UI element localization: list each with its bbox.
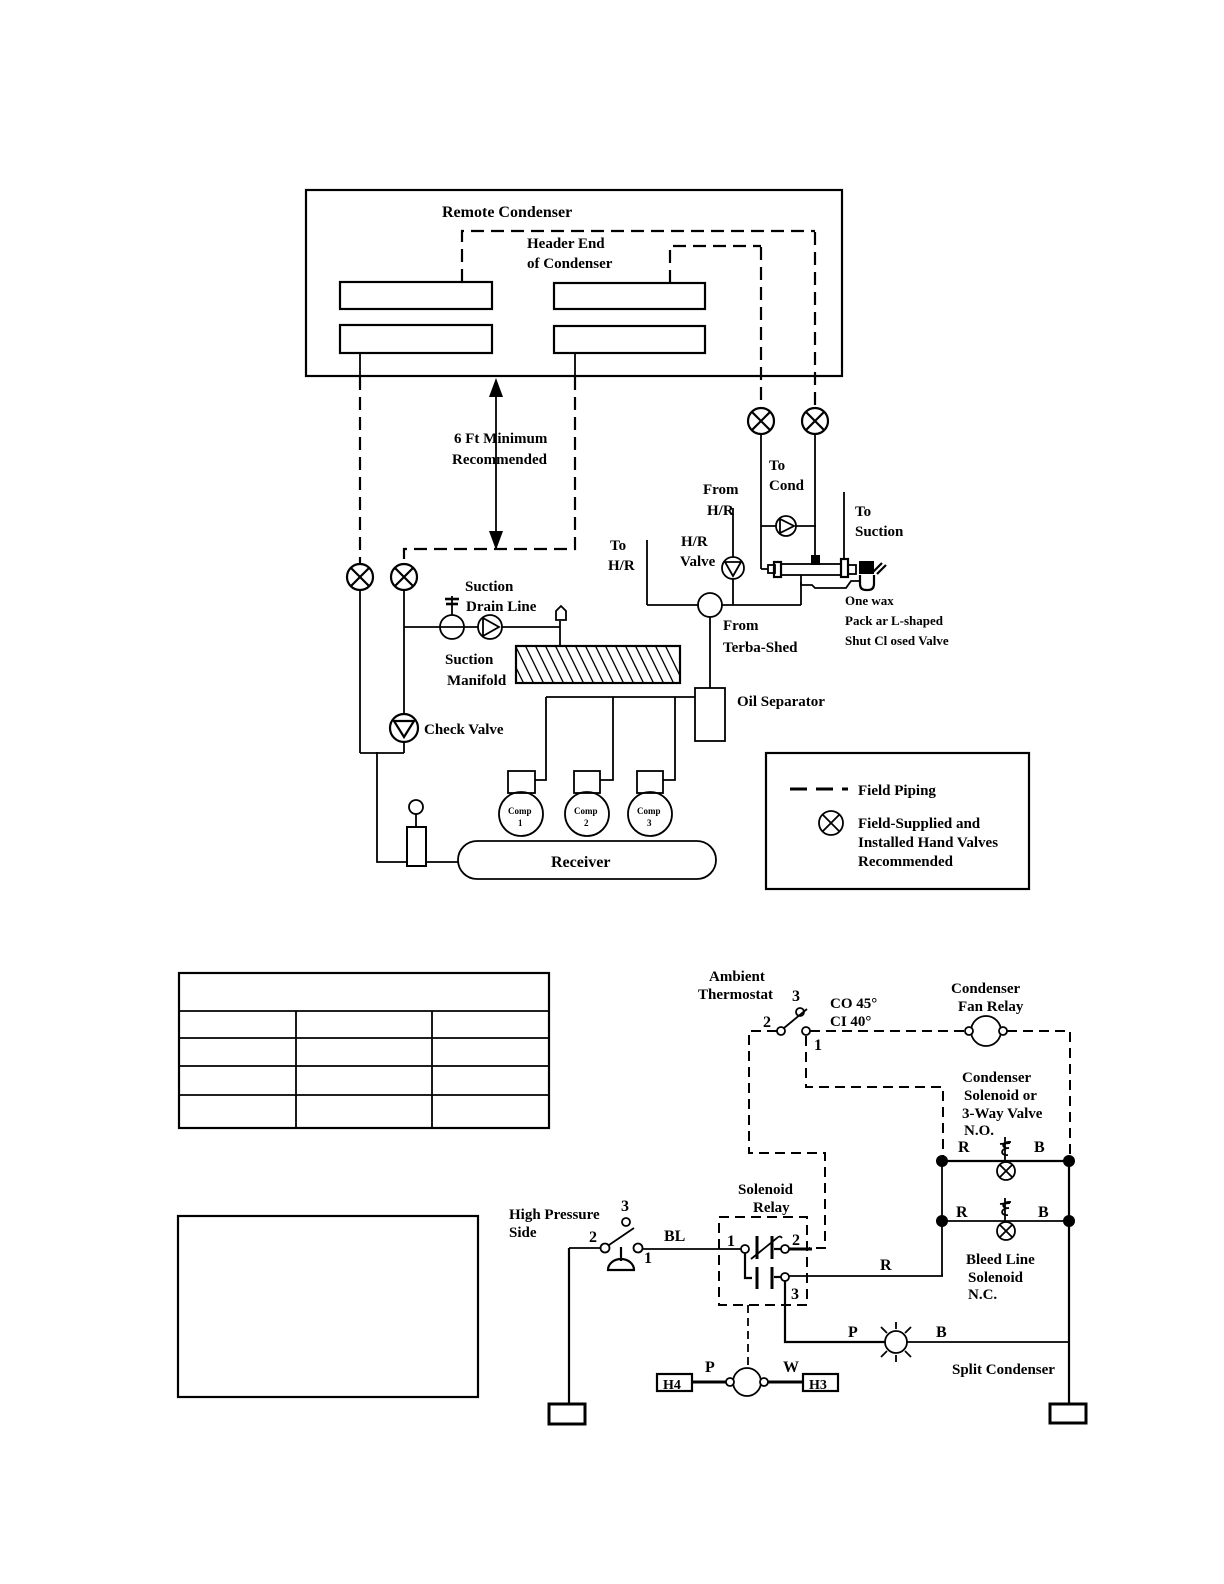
wire To Cond drop (760, 434, 762, 569)
svg-text:2: 2 (792, 1232, 800, 1249)
access fitting on drain line (445, 596, 459, 615)
svg-text:Suction: Suction (465, 579, 514, 595)
hand valve V2 (391, 564, 417, 590)
oil separator (695, 688, 725, 741)
wire pilot to right bus (907, 1341, 1069, 1343)
hand valve V3 (748, 408, 774, 434)
svg-text:Condenser: Condenser (951, 981, 1021, 997)
condenser fan relay coil (965, 1016, 1007, 1046)
bleed line solenoid line (942, 1220, 1069, 1222)
svg-text:R: R (956, 1204, 968, 1221)
svg-text:Side: Side (509, 1225, 537, 1241)
svg-text:3: 3 (621, 1198, 629, 1215)
svg-text:2: 2 (589, 1229, 597, 1246)
wire discharge header (546, 696, 695, 698)
svg-text:Comp: Comp (574, 806, 598, 816)
svg-text:Cond: Cond (769, 478, 805, 494)
svg-text:CO 45°: CO 45° (830, 996, 877, 1012)
svg-text:Pack ar L-shaped: Pack ar L-shaped (845, 613, 944, 628)
wire coil4 drop (574, 353, 576, 376)
svg-text:1: 1 (814, 1037, 822, 1054)
svg-text:Installed Hand Valves: Installed Hand Valves (858, 835, 998, 851)
svg-text:Solenoid or: Solenoid or (964, 1088, 1037, 1104)
svg-text:Recommended: Recommended (858, 854, 954, 870)
relay contact bar lower left (756, 1267, 759, 1289)
wire right drop to exchanger (814, 434, 816, 556)
svg-text:N.O.: N.O. (964, 1123, 994, 1139)
svg-text:To: To (610, 538, 626, 554)
svg-text:From: From (723, 618, 759, 634)
wire dashed fan relay to right bus (1007, 1031, 1070, 1156)
heat exchanger outlet stub (848, 565, 856, 574)
svg-text:3: 3 (792, 988, 800, 1005)
suction manifold (505, 645, 684, 684)
heat exchanger right cap (841, 559, 848, 577)
relay terminal 3 stub (774, 1276, 781, 1278)
svg-text:Field Piping: Field Piping (858, 783, 936, 799)
svg-text:Solenoid: Solenoid (738, 1182, 794, 1198)
wire liquid drop to receiver inlet (377, 752, 407, 862)
wire dashed left liquid drop (359, 377, 361, 563)
condenser solenoid coil symbol (997, 1137, 1015, 1180)
compressor Comp 1 (499, 771, 543, 836)
wire bottom liquid run (360, 752, 404, 754)
svg-text:Check Valve: Check Valve (424, 722, 504, 738)
node From Terba-Shed junction (698, 593, 722, 617)
drain line sight glass (440, 615, 464, 639)
svg-text:Fan Relay: Fan Relay (958, 999, 1024, 1015)
condenser coil 3 (554, 283, 705, 309)
svg-text:Field-Supplied and: Field-Supplied and (858, 816, 981, 832)
svg-text:Header End: Header End (527, 236, 605, 252)
terminal box H3 (803, 1374, 838, 1393)
pressure switch terminal 1 (634, 1244, 643, 1253)
svg-text:Recommended: Recommended (452, 452, 548, 468)
svg-text:Terba-Shed: Terba-Shed (723, 640, 798, 656)
svg-text:Split Condenser: Split Condenser (952, 1362, 1055, 1378)
svg-text:Solenoid: Solenoid (968, 1270, 1024, 1286)
svg-text:R: R (958, 1139, 970, 1156)
svg-text:W: W (783, 1359, 799, 1376)
svg-text:1: 1 (727, 1233, 735, 1250)
svg-text:High Pressure: High Pressure (509, 1207, 600, 1223)
wire suction drain horizontal (404, 626, 560, 628)
relay terminal 3 (781, 1273, 789, 1281)
svg-text:H4: H4 (663, 1378, 681, 1393)
svg-text:H3: H3 (809, 1378, 827, 1393)
note box (178, 1216, 478, 1397)
svg-text:P: P (705, 1359, 715, 1376)
wire valve V2 down through junction to check valve (403, 590, 405, 714)
wire exchanger down to junction run (800, 575, 802, 605)
wire dashed thermostat 1 to fan relay (810, 1030, 969, 1032)
svg-text:Remote Condenser: Remote Condenser (442, 204, 572, 221)
svg-text:3: 3 (791, 1286, 799, 1303)
relay terminal 2 stub (774, 1248, 781, 1250)
wire sight glass to receiver (426, 861, 458, 863)
compressor Comp 3 (628, 771, 672, 836)
service valve block (859, 561, 886, 574)
wire timer to H3 (768, 1381, 803, 1384)
node left R2 (936, 1215, 948, 1227)
svg-text:Comp: Comp (637, 806, 661, 816)
H/R valve (722, 557, 744, 579)
wire check valve to bottom (403, 742, 405, 753)
wire H4 to timer (692, 1381, 726, 1384)
liquid line sight glass assembly (407, 800, 426, 866)
wire dashed relay to defrost timer (747, 1305, 749, 1367)
relay contact bar upper left (756, 1236, 759, 1259)
svg-text:N.C.: N.C. (968, 1287, 997, 1303)
pump bypass line (761, 525, 816, 527)
wire coil2 drop (359, 353, 361, 376)
svg-text:R: R (880, 1257, 892, 1274)
wire dashed thermostat 1 down to solenoid bus (806, 1036, 943, 1156)
svg-text:3-Way Valve: 3-Way Valve (962, 1106, 1043, 1122)
svg-text:Manifold: Manifold (447, 673, 507, 689)
relief fitting atop manifold (556, 606, 566, 646)
thermostat blade (784, 1009, 807, 1028)
solenoid relay dashed box (719, 1217, 807, 1305)
wire right bus to ground (1068, 1221, 1070, 1404)
svg-text:BL: BL (664, 1228, 685, 1245)
heat exchanger inlet elbow (761, 568, 768, 570)
svg-text:Shut Cl osed Valve: Shut Cl osed Valve (845, 633, 949, 648)
wire dashed header inner run (670, 246, 761, 283)
svg-text:6 Ft Minimum: 6 Ft Minimum (454, 431, 548, 447)
svg-text:B: B (1034, 1139, 1045, 1156)
condenser coil 1 (340, 282, 492, 309)
hand valve V1 (347, 564, 373, 590)
pressure switch terminal 2 (601, 1244, 610, 1253)
defrost timer (726, 1368, 768, 1396)
wire terminal 2 out (789, 1248, 812, 1251)
wire left feed to ground (568, 1248, 570, 1404)
heat exchanger inlet stub (768, 565, 775, 573)
svg-text:CI 40°: CI 40° (830, 1014, 871, 1030)
condenser solenoid line (942, 1160, 1069, 1162)
svg-text:Relay: Relay (753, 1200, 790, 1216)
wire left liquid line down (359, 590, 361, 753)
wire relay 3 down to pilot line (785, 1281, 885, 1342)
wire BL from pressure switch to relay (642, 1248, 741, 1250)
svg-text:From: From (703, 482, 739, 498)
pilot light (881, 1322, 911, 1362)
legend dashed sample (790, 788, 848, 791)
wire right bus between solenoids (1068, 1161, 1070, 1221)
wire dashed right drop to corner (404, 377, 575, 563)
wire dashed header top run (462, 231, 815, 282)
svg-text:H/R: H/R (681, 534, 708, 550)
wire left bus down to R wire (941, 1221, 943, 1276)
svg-text:Suction: Suction (445, 652, 494, 668)
svg-text:One wax: One wax (845, 593, 894, 608)
node left R1 (936, 1155, 948, 1167)
wire comp3 discharge riser (663, 697, 675, 780)
heat exchanger body (781, 564, 841, 575)
svg-text:To: To (855, 504, 871, 520)
node right B1 (1063, 1155, 1075, 1167)
svg-text:Valve: Valve (680, 554, 716, 570)
data table (179, 973, 549, 1128)
svg-text:Drain Line: Drain Line (466, 599, 537, 615)
wire H/R valve to junction (732, 579, 734, 605)
svg-text:H/R: H/R (707, 503, 734, 519)
wire left feed to pressure switch (569, 1247, 600, 1249)
thermostat terminal 1 (802, 1027, 810, 1035)
svg-text:2: 2 (763, 1014, 771, 1031)
flexible hose run (801, 581, 860, 588)
svg-text:Comp: Comp (508, 806, 532, 816)
ground left (549, 1404, 585, 1424)
dimension arrow 6 Ft Minimum (489, 378, 503, 550)
thermostat terminal 3 (796, 1008, 804, 1016)
svg-text:3: 3 (647, 818, 652, 828)
svg-text:H/R: H/R (608, 558, 635, 574)
thermostat terminal 2 (777, 1027, 785, 1035)
condenser coil 2 (340, 325, 492, 353)
pump check valve (776, 516, 796, 536)
heat exchanger left cap (774, 562, 781, 577)
wire dashed thermostat 2 to relay (749, 1031, 825, 1248)
legend box (766, 753, 1029, 889)
compressor Comp 2 (565, 771, 609, 836)
svg-text:P: P (848, 1324, 858, 1341)
wire junction to oil separator (709, 617, 711, 688)
svg-text:Bleed Line: Bleed Line (966, 1252, 1035, 1268)
legend hand valve symbol (819, 811, 843, 835)
svg-text:To: To (769, 458, 785, 474)
svg-text:2: 2 (584, 818, 589, 828)
wire From H/R drop (732, 508, 734, 557)
wire dashed drop to hand valve V4 (814, 232, 816, 407)
wire To Suction drop (843, 492, 845, 560)
terminal box H4 (657, 1374, 692, 1393)
svg-text:Receiver: Receiver (551, 854, 611, 871)
relay terminal 2 (781, 1245, 789, 1253)
wire comp2 discharge riser (600, 697, 613, 780)
wire R from relay to left bus (789, 1275, 943, 1277)
relay terminal 1 (741, 1245, 749, 1253)
drier cup (860, 575, 874, 590)
relay pole link (745, 1253, 752, 1278)
node right B2 (1063, 1215, 1075, 1227)
pressure switch terminal 3 (622, 1218, 630, 1226)
svg-text:B: B (1038, 1204, 1049, 1221)
condenser coil 4 (554, 326, 705, 353)
check valve CV1 (390, 714, 418, 742)
wire dashed drop to hand valve V3 (760, 247, 762, 407)
svg-text:1: 1 (518, 818, 523, 828)
hand valve V4 (802, 408, 828, 434)
relay contact bar lower right (771, 1267, 774, 1289)
ground right (1050, 1404, 1086, 1423)
pressure switch blade (609, 1228, 634, 1245)
remote condenser enclosure box (306, 190, 842, 376)
svg-text:B: B (936, 1324, 947, 1341)
svg-text:of Condenser: of Condenser (527, 256, 613, 272)
relay contact bar upper right (771, 1236, 774, 1259)
drain line check valve (478, 615, 502, 639)
receiver (458, 841, 716, 879)
bleed solenoid coil symbol (997, 1198, 1015, 1240)
top fitting on exchanger (811, 555, 820, 565)
svg-text:Ambient: Ambient (709, 969, 765, 985)
wire To H/R stub (646, 540, 648, 605)
svg-text:Thermostat: Thermostat (698, 987, 773, 1003)
svg-text:1: 1 (644, 1250, 652, 1267)
wire junction horizontal run (647, 604, 699, 606)
wire comp1 discharge riser (535, 697, 546, 780)
relay blade upper (751, 1237, 782, 1260)
svg-text:Oil Separator: Oil Separator (737, 694, 825, 710)
pressure bellows (608, 1247, 634, 1270)
svg-text:Condenser: Condenser (962, 1070, 1032, 1086)
wire left bus between solenoids (941, 1161, 943, 1221)
svg-text:Suction: Suction (855, 524, 904, 540)
